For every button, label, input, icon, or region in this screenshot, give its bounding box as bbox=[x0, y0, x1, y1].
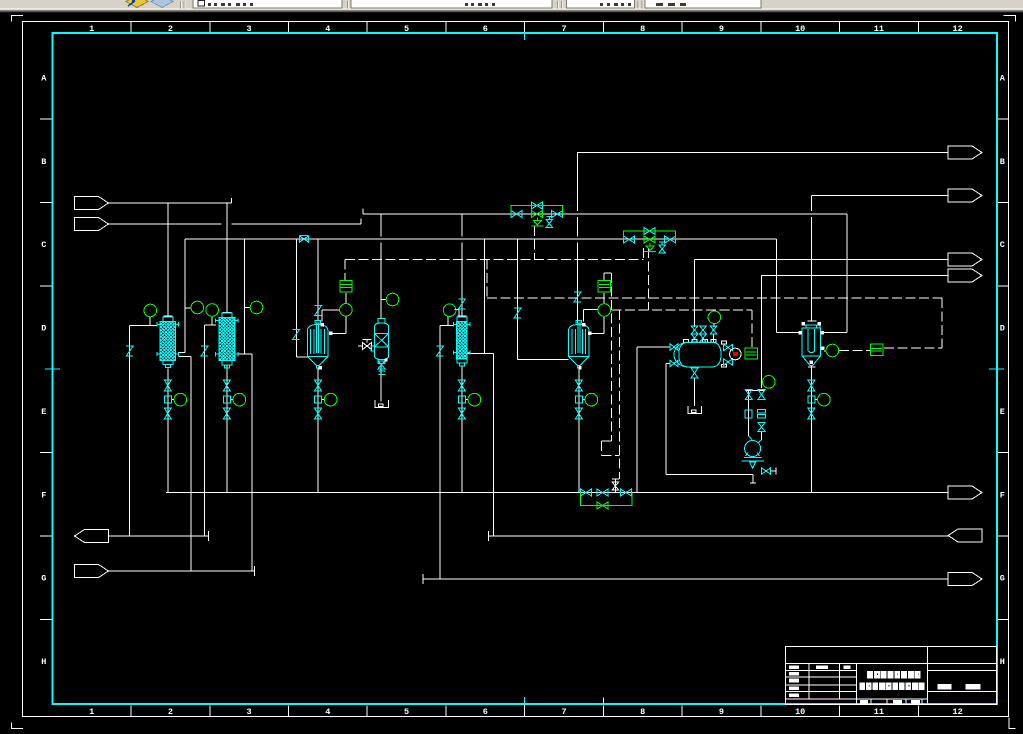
svg-text:10: 10 bbox=[795, 707, 805, 717]
svg-text:4: 4 bbox=[325, 24, 330, 34]
svg-text:H: H bbox=[1000, 657, 1005, 667]
svg-text:E: E bbox=[41, 407, 46, 417]
svg-text:F: F bbox=[41, 490, 46, 500]
svg-text:11: 11 bbox=[874, 24, 884, 34]
svg-text:10: 10 bbox=[795, 24, 805, 34]
svg-text:H: H bbox=[41, 657, 46, 667]
svg-text:G: G bbox=[1000, 574, 1005, 584]
svg-text:8: 8 bbox=[640, 24, 645, 34]
svg-text:A: A bbox=[41, 74, 47, 84]
svg-text:1: 1 bbox=[89, 707, 94, 717]
svg-text:5: 5 bbox=[404, 707, 409, 717]
svg-text:1: 1 bbox=[89, 24, 94, 34]
svg-text:E: E bbox=[1000, 407, 1005, 417]
svg-text:9: 9 bbox=[719, 24, 724, 34]
svg-text:2: 2 bbox=[168, 24, 173, 34]
svg-text:6: 6 bbox=[483, 707, 488, 717]
svg-text:D: D bbox=[41, 324, 46, 334]
svg-text:B: B bbox=[41, 157, 46, 167]
svg-text:G: G bbox=[41, 574, 46, 584]
svg-text:B: B bbox=[1000, 157, 1005, 167]
svg-text:7: 7 bbox=[561, 707, 566, 717]
svg-text:7: 7 bbox=[561, 24, 566, 34]
svg-text:2: 2 bbox=[168, 707, 173, 717]
svg-text:12: 12 bbox=[953, 707, 963, 717]
svg-text:D: D bbox=[1000, 324, 1005, 334]
svg-text:F: F bbox=[1000, 490, 1005, 500]
svg-text:5: 5 bbox=[404, 24, 409, 34]
svg-text:12: 12 bbox=[953, 24, 963, 34]
svg-text:8: 8 bbox=[640, 707, 645, 717]
svg-text:C: C bbox=[41, 240, 46, 250]
svg-text:11: 11 bbox=[874, 707, 884, 717]
svg-text:3: 3 bbox=[247, 707, 252, 717]
svg-text:3: 3 bbox=[247, 24, 252, 34]
svg-text:9: 9 bbox=[719, 707, 724, 717]
svg-text:6: 6 bbox=[483, 24, 488, 34]
svg-text:C: C bbox=[1000, 240, 1005, 250]
svg-text:4: 4 bbox=[325, 707, 330, 717]
svg-text:A: A bbox=[1000, 74, 1006, 84]
